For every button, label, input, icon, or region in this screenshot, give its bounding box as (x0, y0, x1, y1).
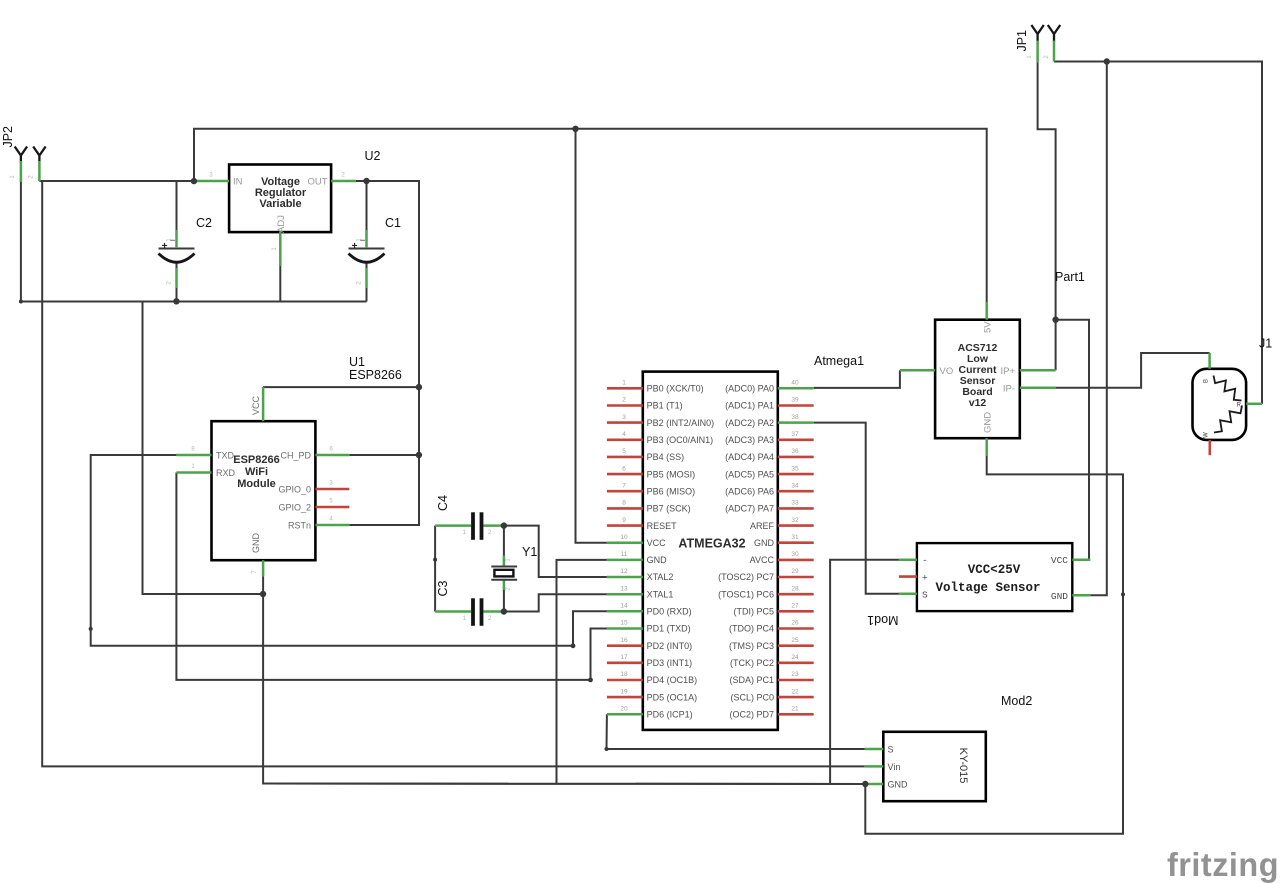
capacitor C3 label (436, 580, 450, 596)
crystal Y1 (491, 526, 517, 612)
svg-text:VO: VO (940, 366, 954, 377)
capacitor C1 label (385, 216, 401, 230)
svg-text:v12: v12 (969, 397, 987, 409)
svg-text:ESP8266: ESP8266 (233, 454, 279, 466)
svg-text:GND: GND (983, 412, 994, 433)
svg-text:PB7 (SCK): PB7 (SCK) (647, 504, 691, 514)
wire ATMEGA PD6 to KY-015 S (607, 714, 865, 749)
wire KY-015 GND bus (263, 783, 865, 786)
svg-text:1: 1 (622, 380, 626, 387)
wire ground rail to ESP8266 GND (143, 302, 264, 595)
svg-text:(ADC4) PA4: (ADC4) PA4 (725, 452, 774, 462)
svg-text:PD4 (OC1B): PD4 (OC1B) (647, 675, 698, 685)
ATMEGA32 pin 10 VCC (607, 534, 666, 548)
svg-text:PB6 (MISO): PB6 (MISO) (647, 486, 696, 496)
svg-text:Variable: Variable (259, 198, 301, 210)
svg-text:AVCC: AVCC (750, 555, 775, 565)
svg-text:CH_PD: CH_PD (280, 451, 311, 461)
wire top VIN rail (194, 129, 987, 302)
svg-text:22: 22 (791, 688, 799, 695)
ATMEGA32 pin 7 PB6 (MISO) (607, 482, 695, 496)
junction node top rail to VCC drop (572, 126, 578, 132)
svg-text:RXD: RXD (216, 468, 236, 478)
svg-text:GPIO_0: GPIO_0 (278, 485, 311, 495)
J1 resistor element top (1214, 376, 1242, 401)
svg-text:(OC2) PD7: (OC2) PD7 (729, 710, 774, 720)
svg-text:IP-: IP- (1003, 384, 1015, 395)
svg-text:6: 6 (622, 465, 626, 472)
svg-text:Atmega1: Atmega1 (814, 354, 864, 368)
svg-text:OUT: OUT (307, 177, 327, 188)
svg-text:(TDI) PC5: (TDI) PC5 (734, 607, 775, 617)
wire ESP8266 VCC feed (263, 386, 419, 388)
svg-text:Mod2: Mod2 (1001, 694, 1032, 708)
ACS712 pin 5V (983, 302, 994, 333)
ATMEGA32 pin 22 (SCL) PC0 (730, 688, 813, 702)
ATMEGA32 pin 33 (ADC7) PA7 (725, 500, 814, 514)
ESP8266 pin GPIO_0 (278, 481, 349, 495)
J1 pin W (1204, 432, 1210, 455)
ATMEGA32 pin 9 RESET (607, 517, 677, 531)
bendpoint ACS GND column (1121, 592, 1125, 596)
capacitor C3 (435, 598, 504, 626)
svg-text:30: 30 (791, 551, 799, 558)
crystal Y1 label (522, 545, 537, 559)
capacitor C1 (349, 230, 385, 288)
wire C2 bottom connect (176, 262, 178, 302)
wire JP1 node to voltage sensor GND (1090, 62, 1107, 596)
svg-text:13: 13 (620, 585, 628, 592)
wire ATMEGA GND pin 11 to ground bus (557, 560, 607, 784)
wire ESP8266 CH_PD feed (349, 454, 419, 456)
svg-text:PB3 (OC0/AIN1): PB3 (OC0/AIN1) (647, 435, 714, 445)
ATMEGA32 pin 23 (SDA) PC1 (729, 671, 813, 685)
svg-text:(TMS) PC3: (TMS) PC3 (729, 641, 774, 651)
ESP8266 pin CH_PD (280, 447, 349, 461)
svg-text:Y1: Y1 (522, 545, 537, 559)
wire C1 top connect (366, 181, 368, 231)
svg-text:2: 2 (622, 397, 626, 404)
svg-text:RSTn: RSTn (288, 521, 311, 531)
svg-text:10: 10 (620, 534, 628, 541)
current sensor ACS712 box (935, 320, 1020, 439)
voltage sensor Mod1 label (867, 613, 898, 627)
svg-text:XTAL1: XTAL1 (647, 589, 674, 599)
ATMEGA32 pin 14 PD0 (RXD) (607, 603, 692, 617)
svg-text:S: S (922, 590, 928, 601)
svg-text:PD3 (INT1): PD3 (INT1) (647, 658, 693, 668)
ATMEGA32 pin 40 (ADC0) PA0 (725, 380, 814, 394)
capacitor C4 label (436, 495, 450, 511)
ATMEGA32 pin 3 PB2 (INT2/AIN0) (607, 414, 714, 428)
capacitor C2 label (196, 216, 212, 230)
junction node ESP CH_PD column (416, 452, 422, 458)
svg-text:16: 16 (620, 637, 628, 644)
ESP8266 pin GPIO_2 (278, 499, 349, 513)
wire crystal top to XTAL2 (504, 526, 607, 577)
svg-text:(ADC1) PA1: (ADC1) PA1 (725, 401, 774, 411)
svg-text:5V: 5V (983, 321, 994, 333)
ATMEGA32 pin 6 PB5 (MOSI) (607, 465, 695, 479)
svg-text:WiFi: WiFi (245, 466, 268, 478)
svg-text:25: 25 (791, 637, 799, 644)
voltage sensor Mod1 box (917, 543, 1072, 611)
svg-text:AREF: AREF (750, 521, 775, 531)
svg-text:29: 29 (791, 568, 799, 575)
svg-text:23: 23 (791, 671, 799, 678)
ATMEGA32 pin 36 (ADC4) PA4 (725, 448, 814, 462)
ATMEGA32 pin 2 PB1 (T1) (607, 397, 683, 411)
svg-text:Part1: Part1 (1055, 270, 1085, 284)
svg-text:PB1 (T1): PB1 (T1) (647, 401, 683, 411)
svg-text:VCC: VCC (647, 538, 667, 548)
svg-text:GND: GND (647, 555, 668, 565)
svg-text:11: 11 (621, 551, 628, 558)
svg-text:GND: GND (1051, 591, 1068, 602)
ESP8266 pin VCC (251, 387, 263, 421)
svg-text:RESET: RESET (647, 521, 678, 531)
ATMEGA32 pin 27 (TDI) PC5 (734, 603, 814, 617)
wire IP+ node to voltage sensor VCC (1056, 320, 1089, 560)
svg-text:37: 37 (791, 431, 799, 438)
ATMEGA32 pin 24 (TCK) PC2 (730, 654, 814, 668)
antenna JP1 pin 1 (1027, 25, 1044, 62)
wire ESP GND down to ground bus (263, 576, 865, 784)
svg-text:(ADC7) PA7: (ADC7) PA7 (725, 504, 774, 514)
svg-text:(TCK) PC2: (TCK) PC2 (730, 658, 774, 668)
svg-text:KY-015: KY-015 (957, 748, 969, 784)
svg-text:3: 3 (622, 414, 626, 421)
KY-015 sensor Mod2 box (883, 732, 986, 801)
svg-text:PB5 (MOSI): PB5 (MOSI) (647, 469, 696, 479)
ATMEGA32 pin 34 (ADC6) PA6 (725, 482, 814, 496)
junction node C2 ground (173, 298, 179, 304)
Mod2 pin GND (865, 780, 908, 790)
connector JP1 label (1015, 30, 1029, 52)
ATMEGA32 pin 19 PD5 (OC1A) (607, 688, 697, 702)
svg-text:PD5 (OC1A): PD5 (OC1A) (647, 692, 698, 702)
ACS712 pin IP+ (1000, 366, 1055, 377)
Mod1 pin minus (899, 555, 928, 566)
ATMEGA32 pin 35 (ADC5) PA5 (725, 465, 814, 479)
svg-text:9: 9 (622, 517, 626, 524)
svg-text:GND: GND (754, 538, 775, 548)
svg-text:C3: C3 (436, 580, 450, 596)
wire C1 bottom connect (366, 262, 368, 302)
wire JP1 pin2 to J1 R (1054, 62, 1262, 404)
junction node KY GND (862, 781, 868, 787)
svg-text:GND: GND (251, 533, 261, 554)
svg-text:ATMEGA32: ATMEGA32 (678, 537, 745, 551)
svg-text:Module: Module (237, 478, 276, 490)
svg-text:26: 26 (791, 620, 799, 627)
wire voltage sensor minus to ground bus (830, 560, 899, 784)
ATMEGA32 pin 21 (OC2) PD7 (729, 706, 813, 720)
ACS712 Part1 label (1055, 270, 1085, 284)
svg-text:C2: C2 (196, 216, 212, 230)
svg-text:(SCL) PC0: (SCL) PC0 (730, 692, 774, 702)
svg-text:Mod1: Mod1 (867, 613, 898, 627)
svg-text:GND: GND (888, 780, 909, 790)
junction node crystal top (501, 522, 507, 528)
svg-text:-: - (922, 555, 928, 566)
svg-text:VCC<25V: VCC<25V (968, 563, 1021, 577)
ATMEGA32 pin 31 GND (754, 534, 814, 548)
svg-text:5: 5 (622, 448, 626, 455)
Mod1 pin VCC (1051, 555, 1090, 566)
bendpoint KY S corner (605, 747, 609, 751)
wire ATMEGA PA2 to voltage sensor S (814, 423, 899, 594)
J1 resistor element bottom (1214, 406, 1242, 433)
svg-text:PB2 (INT2/AIN0): PB2 (INT2/AIN0) (647, 418, 715, 428)
svg-text:U2: U2 (365, 149, 381, 163)
svg-text:C4: C4 (436, 495, 450, 511)
ESP8266 pin TXD (176, 447, 234, 461)
ATMEGA32 pin 37 (ADC3) PA3 (725, 431, 814, 445)
U2 pin ADJ (272, 215, 287, 266)
ATMEGA32 pin 32 AREF (750, 517, 814, 531)
ESP8266 module U1 box (212, 421, 316, 560)
Mod1 pin S (899, 590, 928, 601)
wire JP2 pin2 to U2 IN (net VIN) (39, 180, 194, 182)
svg-text:PD0 (RXD): PD0 (RXD) (647, 607, 692, 617)
svg-text:35: 35 (791, 465, 799, 472)
connector JP2 label (1, 126, 15, 148)
svg-text:(SDA) PC1: (SDA) PC1 (729, 675, 774, 685)
svg-text:(TDO) PC4: (TDO) PC4 (729, 624, 774, 634)
svg-text:JP2: JP2 (1, 126, 15, 148)
svg-text:PD1 (TXD): PD1 (TXD) (647, 624, 691, 634)
junction node at U2 OUT / C1 (363, 178, 369, 184)
ATMEGA32 pin 18 PD4 (OC1B) (607, 671, 697, 685)
svg-text:14: 14 (620, 603, 628, 610)
wire ADJ to ground rail (279, 266, 281, 302)
svg-text:(ADC5) PA5: (ADC5) PA5 (725, 469, 774, 479)
wire ESP RXD to ATMEGA PD1 (176, 473, 607, 680)
ATMEGA32 pin 13 XTAL1 (607, 585, 674, 599)
svg-text:17: 17 (620, 654, 628, 661)
svg-text:12: 12 (620, 568, 628, 575)
wire ACS712 GND loop to KY-015 GND (865, 456, 1123, 834)
svg-text:20: 20 (620, 706, 628, 713)
ATMEGA32 pin 5 PB4 (SS) (607, 448, 684, 462)
ATMEGA32 pin 1 PB0 (XCK/T0) (607, 380, 704, 394)
wire KY-015 S feed (607, 748, 865, 750)
wire C2 top connect (176, 181, 178, 231)
svg-text:7: 7 (622, 482, 626, 489)
junction node ESP VCC column (416, 384, 422, 390)
ATMEGA32 Atmega1 label (814, 354, 864, 368)
wire VIN drop to KY-015 Vin (42, 181, 865, 766)
svg-text:PD2 (INT0): PD2 (INT0) (647, 641, 693, 651)
junction node JP1 rail (1104, 58, 1110, 64)
wire VIN drop to ATMEGA VCC pin 10 (576, 129, 607, 543)
ACS712 pin VO (900, 366, 953, 377)
fritzing logo (1167, 846, 1279, 883)
wire ATMEGA PA0 to ACS712 VO (814, 370, 900, 388)
svg-text:(ADC3) PA3: (ADC3) PA3 (725, 435, 774, 445)
ATMEGA32 pin 4 PB3 (OC0/AIN1) (607, 431, 713, 445)
capacitor C4 (435, 512, 504, 540)
svg-text:38: 38 (791, 414, 799, 421)
wire crystal loop left side (434, 526, 436, 612)
ATMEGA32 pin 26 (TDO) PC4 (729, 620, 814, 634)
svg-text:PB0 (XCK/T0): PB0 (XCK/T0) (647, 384, 704, 394)
ATMEGA32 pin 20 PD6 (ICP1) (607, 706, 693, 720)
bendpoint JP2 rail corner (19, 300, 23, 304)
svg-text:VCC: VCC (1051, 555, 1068, 566)
svg-text:S: S (888, 745, 894, 755)
wire crystal bottom to XTAL1 (504, 594, 607, 611)
ESP8266 pin RXD (176, 464, 235, 478)
ATMEGA32 pin 25 (TMS) PC3 (729, 637, 814, 651)
wire ACS712 IP- to J1 B (1056, 353, 1210, 388)
svg-text:Vin: Vin (888, 762, 901, 772)
svg-text:24: 24 (791, 654, 799, 661)
svg-text:ADJ: ADJ (276, 215, 287, 233)
capacitor C2 (159, 230, 195, 288)
wire U2 OUT to C1 and ESP column (349, 181, 419, 525)
sensor J1 body (1193, 369, 1247, 440)
Mod1 pin plus (899, 573, 928, 584)
svg-text:IP+: IP+ (1000, 366, 1015, 377)
ATMEGA32 pin 30 AVCC (750, 551, 814, 565)
bendpoint TXD column (89, 627, 93, 631)
Mod1 pin GND (1051, 591, 1090, 602)
junction node crystal bottom (501, 608, 507, 614)
Mod2 pin S (865, 745, 894, 755)
svg-text:(ADC2) PA2: (ADC2) PA2 (725, 418, 774, 428)
svg-text:40: 40 (791, 380, 799, 387)
svg-text:+: + (922, 573, 928, 584)
ATMEGA32 pin 29 (TOSC2) PC7 (718, 568, 814, 582)
ESP8266 pin GND (251, 533, 263, 577)
J1 pin R (1237, 403, 1262, 409)
sensor J1 label (1259, 337, 1272, 351)
svg-text:(TOSC2) PC7: (TOSC2) PC7 (718, 572, 774, 582)
voltage regulator U2 label (365, 149, 381, 163)
svg-text:28: 28 (791, 585, 799, 592)
svg-text:33: 33 (791, 500, 799, 507)
ATMEGA32 pin 38 (ADC2) PA2 (725, 414, 814, 428)
svg-text:fritzing: fritzing (1167, 846, 1279, 883)
svg-text:JP1: JP1 (1015, 30, 1029, 52)
svg-text:C1: C1 (385, 216, 401, 230)
junction node TXD column (571, 643, 576, 648)
svg-text:8: 8 (622, 500, 626, 507)
svg-text:36: 36 (791, 448, 799, 455)
junction node IP+ column (1052, 317, 1058, 323)
KY-015 Mod2 label (1001, 694, 1032, 708)
svg-text:4: 4 (622, 431, 626, 438)
svg-text:31: 31 (791, 534, 799, 541)
ACS712 pin IP- (1003, 384, 1056, 395)
bendpoint crystal loop (433, 558, 437, 562)
svg-text:W: W (1204, 432, 1210, 438)
ATMEGA32 pin 39 (ADC1) PA1 (725, 397, 814, 411)
ATMEGA32 pin 16 PD2 (INT0) (607, 637, 692, 651)
svg-text:TXD: TXD (216, 451, 235, 461)
svg-text:VCC: VCC (251, 395, 261, 415)
svg-text:21: 21 (791, 706, 799, 713)
U2 pin IN (194, 173, 243, 188)
svg-text:J1: J1 (1259, 337, 1272, 351)
svg-text:PB4 (SS): PB4 (SS) (647, 452, 685, 462)
voltage regulator U2 box (229, 165, 331, 233)
ESP8266 U1 label (349, 355, 402, 382)
svg-text:(ADC6) PA6: (ADC6) PA6 (725, 486, 774, 496)
ATMEGA32 pin 12 XTAL2 (607, 568, 674, 582)
svg-text:IN: IN (233, 177, 243, 188)
antenna JP2 pin 1 (10, 147, 27, 183)
svg-text:B: B (1204, 379, 1210, 383)
junction node at U2 IN (191, 178, 197, 184)
svg-text:39: 39 (791, 397, 799, 404)
junction node RXD column (588, 678, 593, 683)
Mod2 pin Vin (865, 762, 901, 772)
svg-text:27: 27 (791, 603, 799, 610)
ESP8266 pin RSTn (288, 517, 349, 531)
ACS712 pin GND (983, 412, 994, 456)
J1 pin B (1204, 353, 1210, 383)
IC ATMEGA32 box (643, 372, 778, 730)
wire ESP TXD to ATMEGA PD0 (91, 455, 607, 646)
svg-text:PD6 (ICP1): PD6 (ICP1) (647, 710, 693, 720)
svg-text:(ADC0) PA0: (ADC0) PA0 (725, 384, 774, 394)
svg-text:34: 34 (791, 482, 799, 489)
svg-text:15: 15 (620, 620, 628, 627)
junction node ESP GND (260, 591, 266, 597)
antenna JP2 pin 2 (29, 147, 46, 182)
U2 pin OUT (307, 173, 355, 188)
svg-text:Voltage Sensor: Voltage Sensor (935, 581, 1040, 595)
ATMEGA32 pin 15 PD1 (TXD) (607, 620, 691, 634)
svg-text:(TOSC1) PC6: (TOSC1) PC6 (718, 589, 774, 599)
antenna JP1 pin 2 (1044, 25, 1060, 62)
svg-text:XTAL2: XTAL2 (647, 572, 674, 582)
ATMEGA32 pin 17 PD3 (INT1) (607, 654, 692, 668)
ATMEGA32 pin 28 (TOSC1) PC6 (718, 585, 814, 599)
wire JP1 pin1 to ACS712 IP+ (1038, 62, 1056, 370)
ATMEGA32 pin 8 PB7 (SCK) (607, 500, 691, 514)
ATMEGA32 pin 11 GND (607, 551, 667, 565)
svg-text:ESP8266: ESP8266 (349, 368, 402, 382)
svg-text:GPIO_2: GPIO_2 (278, 503, 311, 513)
wire JP2 pin1 to ground rail (21, 182, 367, 302)
svg-text:32: 32 (791, 517, 799, 524)
svg-text:U1: U1 (349, 355, 365, 369)
svg-text:19: 19 (620, 688, 628, 695)
svg-text:18: 18 (620, 671, 628, 678)
